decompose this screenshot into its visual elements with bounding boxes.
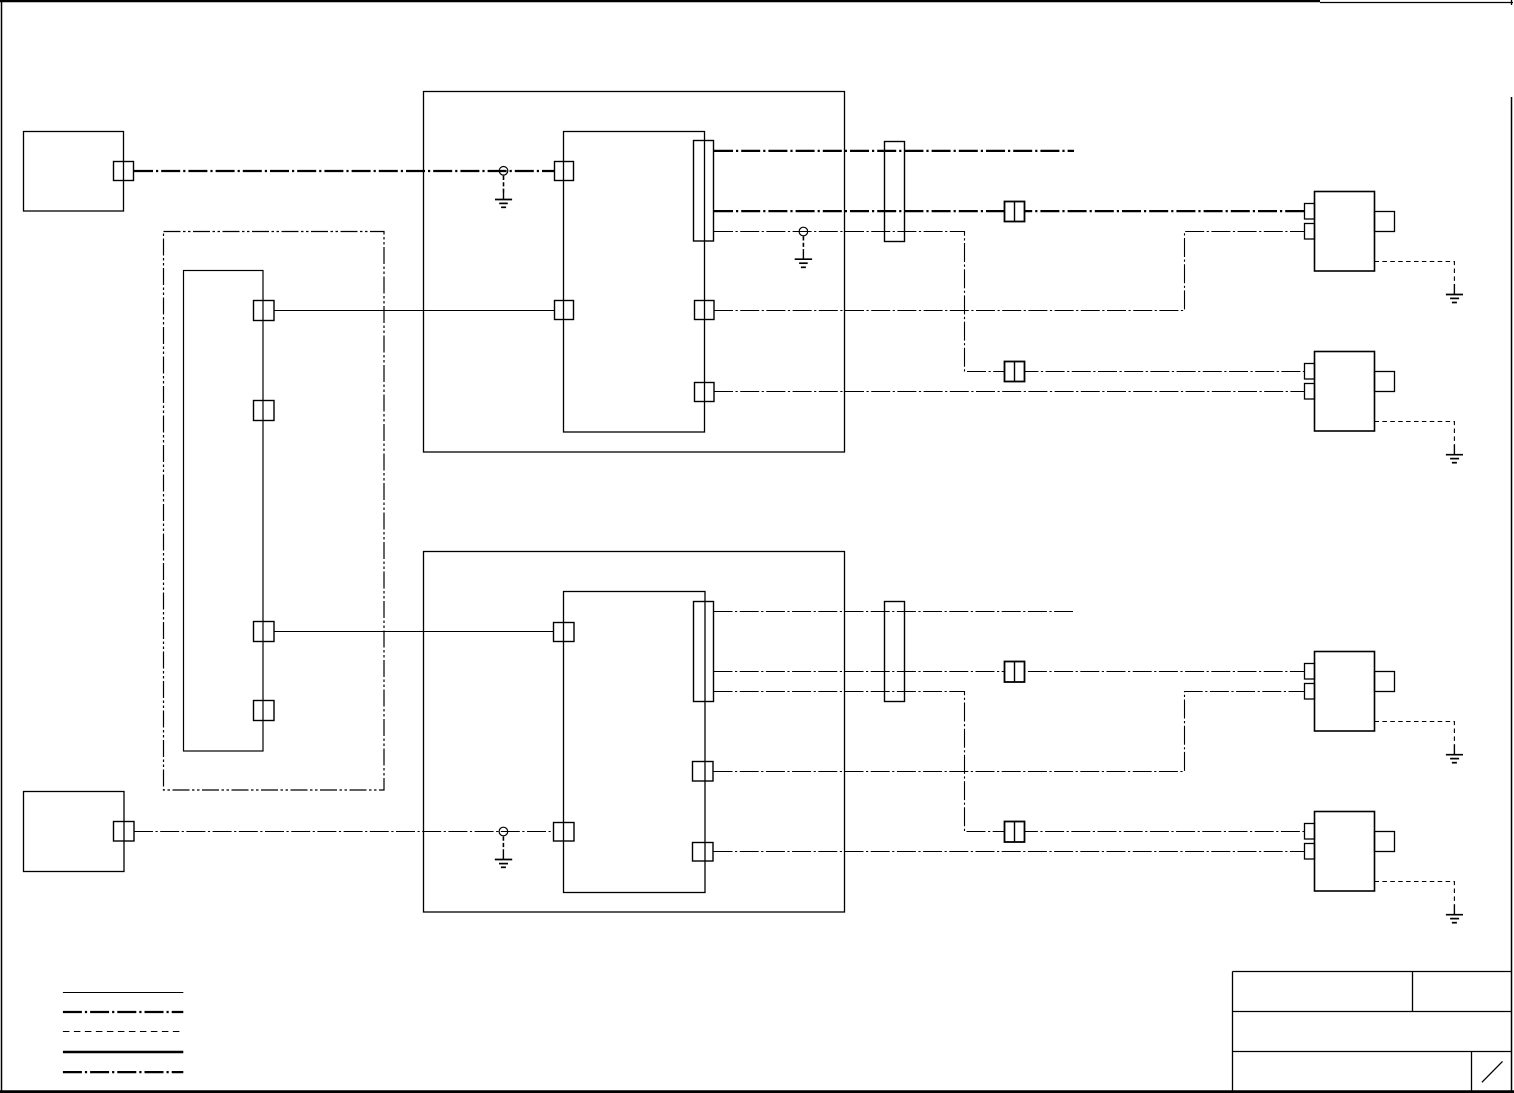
inline connector pair C2a on coil 3 feed (1005, 662, 1025, 683)
wire: thin dash-dot from unit 2 mid pin to coil 3 pin 2 (jog up) (714, 692, 1305, 772)
ground G3 (coil 1) (1446, 284, 1463, 303)
wire: bold dash-dot from box A to control unit 1 (134, 170, 555, 172)
terminal on box A (114, 162, 134, 181)
pin: control unit 1 left pin 2 (555, 301, 574, 320)
legend line sample: bold dash-dot (63, 1071, 183, 1073)
junction pin 4 (254, 701, 275, 721)
ground G1 (inside box 1) (495, 167, 512, 208)
wire: thin dash-dot output A2 (ends mid-air) (714, 611, 1074, 613)
pin: control unit 1 left pin 1 (555, 162, 574, 181)
legend line sample: thin dashed (63, 1031, 183, 1033)
ignition coil 4 (bottom right) (1305, 812, 1395, 892)
wire: dashed ground lead of coil 4 (1375, 882, 1455, 905)
pin: control unit 2 left pin 1 (554, 623, 575, 642)
wire: dashed ground lead of coil 2 (1375, 422, 1455, 445)
control unit 2 (inner box bottom) (564, 592, 706, 893)
inline connector pair C2b on coil 4 feed (1005, 822, 1025, 843)
pin: control unit 1 right low pin (695, 383, 715, 402)
wire: bold dash-dot to ignition coil 1 pin 1 (714, 210, 1305, 212)
wire: thin dash-dot from box B to control unit 2 (134, 831, 554, 833)
junction connector (tall rectangle in enclosure) (184, 271, 264, 752)
wire: bold dash-dot output A (ends mid-air) (714, 150, 1074, 152)
legend line sample: bold dash-dot (63, 1011, 183, 1013)
wire: thin dash-dot from unit 1 low pin to ignition coil 2 pin 2 (714, 391, 1305, 393)
pin: control unit 1 right mid pin (695, 301, 715, 320)
wire: thin dash-dot to ignition coil 4 pin 1 (jog down) (714, 692, 1305, 832)
connector box B (bottom left) (24, 792, 125, 872)
inline connector pair C1b on coil 2 feed (1005, 362, 1025, 382)
ground G8 (coil 4) (1446, 904, 1463, 923)
junction pin 2 (254, 401, 275, 421)
wire: dashed ground lead of coil 3 (1375, 722, 1455, 745)
pin: control unit 2 right mid pin (693, 762, 714, 782)
control unit 1 (inner box top) (564, 132, 705, 433)
wire: thin dash-dot to ignition coil 2 pin 1 (with jog down) (714, 232, 1305, 372)
junction pin 1 (254, 301, 275, 321)
inline connector pair C1a on coil 1 feed (1005, 202, 1025, 222)
ground G2 (on wire at 231) (795, 227, 812, 267)
ground G4 (coil 2) (1446, 444, 1463, 463)
wire: dashed ground lead of coil 1 (1375, 262, 1455, 285)
pin: control unit 2 left pin 2 (554, 823, 575, 842)
ignition coil 2 (right) (1305, 352, 1395, 432)
inline connector (tall, bottom harness) (885, 602, 905, 702)
title block (1233, 972, 1512, 1092)
pin: control unit 2 right low pin (693, 843, 714, 862)
connector strip on control unit 1 (694, 141, 714, 242)
wire: thin dash-dot from unit 2 low pin to coil 4 pin 2 (714, 851, 1305, 853)
control module outer box 2 (bottom) (424, 552, 845, 913)
ground G7 (coil 3) (1446, 744, 1463, 763)
legend line sample: thin solid (63, 992, 183, 994)
control module outer box 1 (top) (424, 92, 845, 453)
wire: thin dash-dot to ignition coil 3 pin 1 (714, 671, 1305, 673)
inline connector (tall, top harness) (885, 142, 905, 242)
harness enclosure (dash-dot-dot boundary) (164, 232, 385, 791)
wire: thin solid from junction pin to control unit 1 pin (274, 310, 555, 312)
junction pin 3 (254, 622, 275, 642)
ignition coil 3 (right) (1305, 652, 1395, 732)
ignition coil 1 (top right) (1305, 192, 1395, 272)
wire: thin dash-dot from unit 1 mid pin to ignition coil 1 pin 2 (jog up) (714, 232, 1305, 311)
terminal on box B (114, 822, 135, 842)
ground G5 (on wire from box B) (495, 827, 512, 867)
wire: thin solid from junction pin to control unit 2 pin (274, 631, 554, 633)
legend line sample: bold solid (63, 1051, 183, 1054)
connector box A (top left) (24, 132, 124, 212)
connector strip on control unit 2 (694, 602, 714, 702)
